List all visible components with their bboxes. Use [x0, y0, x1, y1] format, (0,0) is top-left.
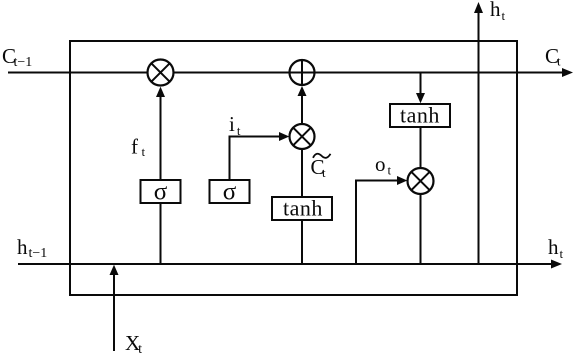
multiply node X1 forget gate	[148, 60, 174, 86]
svg-text:tanh: tanh	[400, 103, 440, 128]
tanh box middle	[272, 197, 332, 220]
svg-text:Ct−1: Ct−1	[2, 44, 32, 70]
plus mark in add node	[290, 60, 315, 85]
wire cell-state line C	[8, 72, 564, 74]
wire below tanh mid	[301, 220, 303, 264]
sigma box 2	[210, 180, 250, 203]
arrowhead h_t top	[474, 2, 483, 13]
wire multiply3 to h line	[420, 194, 422, 264]
svg-text:σ: σ	[154, 179, 168, 206]
wire X_t input vertical	[113, 274, 115, 351]
svg-text:Ct: Ct	[311, 155, 327, 180]
wire tanh right to multiply3	[420, 127, 422, 168]
arrowhead down into tanh right	[416, 93, 425, 103]
wire i gate path	[230, 137, 281, 181]
wire multiply2 to tanh mid	[301, 149, 303, 197]
svg-text:tanh: tanh	[283, 196, 323, 221]
add node plus	[290, 60, 315, 85]
arrowhead h_t right	[551, 260, 562, 269]
arrowhead C_t right	[562, 68, 573, 77]
tanh box right	[390, 104, 450, 127]
svg-text:Ct: Ct	[545, 44, 561, 69]
X mark in multiply node 3	[411, 172, 429, 190]
wire C branch down to tanh right	[420, 73, 422, 94]
tilde accent over C	[313, 154, 331, 158]
arrowhead o into multiply3	[397, 176, 407, 185]
svg-text:ht−1: ht−1	[17, 235, 47, 261]
wire below sigma1	[160, 203, 162, 264]
multiply node X3 output gate	[408, 168, 434, 194]
wire hidden-state line h	[18, 263, 553, 265]
wire o gate path	[356, 181, 398, 265]
X mark in multiply node 1	[151, 63, 169, 81]
cell boundary rectangle	[70, 41, 517, 295]
arrowhead candidate into add node	[298, 86, 307, 96]
X mark in multiply node 2	[293, 128, 311, 146]
svg-text:it: it	[229, 112, 241, 138]
sigma box 1	[141, 180, 181, 203]
arrowhead X_t up	[110, 265, 119, 275]
svg-text:σ: σ	[223, 179, 237, 206]
multiply node X2 input gate	[290, 124, 315, 149]
wire h_t output vertical	[478, 12, 480, 264]
wire candidate to add node	[301, 95, 303, 124]
arrowhead f into multiply1	[156, 87, 165, 97]
svg-text:ht: ht	[548, 235, 564, 261]
wire f gate vertical	[160, 96, 162, 180]
arrowhead i into multiply2	[279, 132, 289, 141]
svg-text:Xt: Xt	[125, 331, 142, 357]
svg-text:ht: ht	[490, 0, 506, 23]
svg-text:ft: ft	[131, 135, 146, 160]
svg-text:ot: ot	[375, 152, 392, 178]
